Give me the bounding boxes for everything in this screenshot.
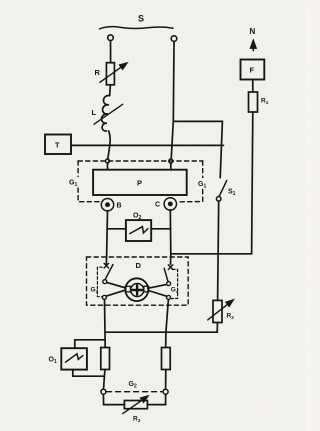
motor brush left — [125, 286, 130, 292]
resistor right lower — [162, 348, 171, 370]
node G2 left — [101, 389, 106, 394]
lower contact right — [167, 295, 171, 299]
transformer box T — [45, 135, 71, 155]
wire O2 right — [151, 228, 171, 230]
svg-text:L: L — [92, 108, 97, 117]
node on G1 top right — [169, 159, 173, 163]
wire R1 down and left to C rail — [172, 112, 253, 254]
arrow to N — [252, 41, 254, 51]
wire T output — [71, 144, 224, 146]
svg-text:D: D — [136, 261, 142, 270]
arrow of variable resistor R2 — [208, 300, 233, 320]
wire L to node at G1 top — [108, 131, 110, 159]
resistor R1 — [249, 92, 258, 112]
blade right switch — [164, 268, 168, 281]
blade left switch — [105, 265, 113, 280]
terminal right plug — [171, 36, 177, 42]
wire node to P left — [107, 163, 109, 170]
waveform in O2 — [130, 227, 148, 234]
switch S1 blade — [219, 181, 226, 197]
arrow of variable resistor R3 — [123, 396, 148, 413]
switch S1 pivot — [216, 197, 221, 202]
wire O2 left — [107, 228, 126, 230]
resistor R3 — [124, 401, 147, 409]
node on G1 top left — [106, 159, 110, 163]
lower contact left — [102, 295, 106, 299]
pivot right switch — [167, 282, 171, 286]
node G2 right — [163, 389, 168, 394]
resistor R2 — [213, 300, 222, 322]
wire branch to S1 — [173, 121, 222, 177]
inductor L — [102, 96, 110, 132]
contact cross left switch — [104, 263, 109, 268]
dashed box D — [87, 257, 189, 305]
wire O1 bottom tap — [73, 370, 104, 377]
frequency meter box F — [241, 60, 265, 80]
wire lower contact to motor left — [106, 290, 126, 296]
inner dashed frame right G4 — [171, 269, 177, 298]
motor brush right — [144, 286, 149, 292]
svg-text:R: R — [95, 68, 101, 77]
contact cross right switch — [168, 265, 173, 270]
svg-text:S: S — [138, 14, 144, 24]
wire O1 top tap — [75, 340, 105, 348]
wire right terminal down to node — [171, 42, 174, 160]
wire pivot to motor left top — [107, 282, 126, 288]
wire node to P right — [170, 163, 172, 170]
motor inner circle — [131, 284, 144, 297]
wire C down to D box — [169, 210, 172, 264]
inner dashed frame left G3 — [97, 267, 102, 297]
wire lower contact to motor right — [148, 291, 166, 297]
wire left resistor to G2 node — [104, 370, 105, 390]
box P — [93, 170, 187, 195]
wire left terminal to R — [110, 41, 112, 63]
dashed box G1 — [78, 161, 203, 202]
motor outer circle — [125, 278, 148, 301]
svg-text:N: N — [250, 27, 256, 36]
wire pivot to motor right top — [148, 284, 166, 288]
dashed link G2 — [107, 391, 163, 393]
wire F to R1 — [252, 80, 254, 93]
wire left switch down — [104, 299, 107, 347]
wire bottom left to R3 — [103, 394, 124, 404]
oscillograph box O1 — [61, 348, 87, 369]
wire B down to D box — [106, 211, 107, 265]
svg-text:T: T — [55, 141, 60, 150]
resistor R — [106, 63, 114, 85]
oscillograph box O2 — [126, 220, 151, 241]
wire S1 to R2 — [218, 201, 219, 300]
svg-text:B: B — [117, 203, 122, 210]
arrow of variable resistor R — [100, 63, 127, 82]
pivot left switch — [103, 280, 107, 284]
wire R to L — [109, 85, 112, 96]
terminal C — [164, 198, 176, 210]
terminal B — [101, 199, 113, 211]
svg-text:C: C — [155, 202, 160, 209]
motor armature cross — [132, 285, 142, 294]
svg-text:F: F — [250, 66, 255, 75]
wire right resistor to G2 node — [165, 370, 167, 390]
wire R2 bottom to left rail — [105, 323, 217, 333]
resistor left lower — [101, 348, 110, 370]
wire R3 to right node — [147, 394, 165, 404]
terminal left plug — [108, 35, 114, 41]
strike line of variable inductor L — [94, 104, 123, 124]
waveform in O1 — [66, 354, 83, 362]
wire supply line S — [100, 27, 174, 29]
wire right switch down — [166, 299, 169, 347]
svg-text:P: P — [137, 179, 142, 188]
